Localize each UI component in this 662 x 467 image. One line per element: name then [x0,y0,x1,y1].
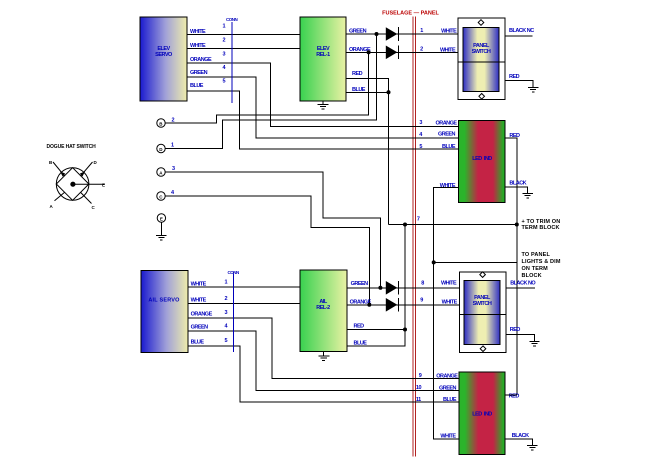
node dot B-riser on ORANGE row [367,50,371,54]
svg-text:RED: RED [509,393,520,399]
servo U3 AIL SERVO [141,270,188,352]
wire ELEV REL-1 BLUE [346,87,389,93]
svg-text:BLUE: BLUE [443,397,457,403]
node dot RED/BLUE junction [387,90,391,94]
wire terminal C to AIL ORANGE diode node [165,196,369,305]
svg-text:ORANGE: ORANGE [436,374,458,380]
wire ELEV REL-1 RED to trim bus [346,71,389,225]
svg-text:WHITE: WHITE [440,48,456,54]
svg-text:D: D [159,147,163,152]
ground for panel switch 1 [528,87,538,92]
hat switch arm C (lower-right) [81,192,92,203]
svg-text:RED: RED [509,74,520,80]
svg-text:2: 2 [420,47,423,53]
hat switch S1 body circle [56,168,89,201]
svg-text:5: 5 [222,79,225,85]
wire RED from panel switch 2 to ground [506,327,535,341]
svg-text:5: 5 [419,144,422,150]
wire BLACK NC from panel switch 1 [505,28,534,36]
svg-text:BLACK NC: BLACK NC [509,28,534,34]
ground for panel switch 2 [529,341,539,346]
svg-text:SWITCH: SWITCH [472,49,491,55]
hat switch arrowhead B [60,171,65,176]
relay U2 ELEV REL-1 [300,17,346,101]
wire WHITE into LED1 from dim bus [434,183,459,439]
svg-text:E: E [102,183,105,188]
svg-text:ON TERM: ON TERM [522,266,549,272]
wire ELEV REL-1 ORANGE [346,47,458,53]
svg-text:GREEN: GREEN [439,386,457,392]
switch S2 divider [458,61,505,63]
switch S2 mounting diamond bottom [479,94,485,100]
svg-text:2: 2 [222,38,225,44]
svg-text:7: 7 [417,217,420,223]
svg-text:C: C [159,194,163,199]
svg-text:SWITCH: SWITCH [473,301,492,307]
wire RED from panel switch 1 to ground [505,74,533,87]
switch S3 mounting diamond top [480,272,486,278]
switch S3 PANEL SWITCH outer [459,272,506,353]
wire BLACK from LED2 to ground [505,433,532,445]
wire trim bus row [389,224,517,226]
svg-text:ORANGE: ORANGE [435,121,457,127]
svg-text:REL-2: REL-2 [316,305,330,311]
svg-text:C: C [92,205,96,210]
svg-text:BLUE: BLUE [354,340,368,346]
wire ELEV REL-1 GREEN [346,29,458,35]
wire AIL REL-2 ORANGE [347,299,459,305]
svg-text:3: 3 [419,120,422,126]
svg-text:WHITE: WHITE [440,434,456,440]
switch S2 inner body [463,28,499,92]
svg-text:RED: RED [352,71,363,77]
svg-text:1: 1 [224,280,227,286]
terminal E [157,214,165,222]
svg-text:LED IND: LED IND [472,412,492,418]
svg-text:BLUE: BLUE [191,339,205,345]
wire AIL SERVO pin4 GREEN [188,325,459,391]
switch S3 inner body [464,280,500,344]
wire terminal D to GREEN diode node [165,34,376,149]
svg-text:WHITE: WHITE [441,29,457,35]
svg-text:3: 3 [224,310,227,316]
wire AIL SERVO pin5 BLUE [188,339,459,402]
svg-text:GREEN: GREEN [351,281,369,287]
terminal D [157,143,174,153]
svg-text:11: 11 [416,397,421,403]
svg-text:GREEN: GREEN [191,325,209,331]
wire panel lights dim row [434,261,517,263]
svg-text:RED: RED [354,324,365,330]
svg-text:3: 3 [222,52,225,58]
hat switch arm B (upper-left) [53,162,65,176]
lamp LED IND 1 [459,121,505,203]
svg-text:ORANGE: ORANGE [190,57,212,63]
svg-text:1: 1 [222,24,225,30]
ground for LED1 [522,194,532,199]
svg-text:8: 8 [421,281,424,287]
diode D4 [386,298,399,312]
svg-text:10: 10 [416,385,422,391]
svg-text:REL-1: REL-1 [316,52,330,58]
wire ELEV SERVO pin1 WHITE [187,29,300,35]
diode D3 [386,281,399,295]
svg-text:D: D [94,160,98,165]
wire AIL REL-2 RED [347,324,405,330]
svg-text:BLUE: BLUE [442,144,456,150]
hat switch center dot [70,182,75,187]
svg-text:WHITE: WHITE [442,300,458,306]
terminal C [157,190,175,200]
diode D1 [386,27,399,41]
svg-text:B: B [49,160,53,165]
hat switch inscribed diamond [56,168,89,201]
switch S2 label [472,43,491,55]
connector J2 CONN [224,270,239,352]
wire AIL SERVO pin1 WHITE [188,281,300,287]
svg-text:RED: RED [510,327,521,333]
svg-text:BLACK: BLACK [509,181,526,187]
ground below ELEV REL-1 [318,101,329,109]
svg-text:LED IND: LED IND [472,156,492,162]
ground below AIL REL-2 [318,352,329,361]
fuselage-panel boundary line [413,17,415,457]
switch S2 PANEL SWITCH outer [458,18,505,100]
node dot D-riser on GREEN row [375,32,379,36]
diode D2 [386,46,399,60]
svg-text:1: 1 [171,143,174,149]
svg-text:2: 2 [224,296,227,302]
svg-text:ORANGE: ORANGE [191,311,213,317]
wire ELEV SERVO pin3 ORANGE [187,57,459,127]
node dot A-riser on AIL GREEN row [378,286,382,290]
ground for LED2 [527,446,537,451]
svg-text:TERM BLOCK: TERM BLOCK [522,225,560,231]
switch S2 mounting diamond top [478,20,484,26]
switch S3 mounting diamond bottom [480,346,486,352]
svg-text:1: 1 [420,28,423,34]
wire AIL REL-2 BLUE [347,330,405,347]
wire BLACK NO from panel switch 2 [506,280,536,288]
svg-text:TO PANEL: TO PANEL [522,252,551,258]
svg-text:9: 9 [420,297,423,303]
node dot trim/ail riser [403,223,407,227]
svg-text:SERVO: SERVO [155,52,173,58]
wire ELEV SERVO pin4 GREEN [187,70,459,138]
svg-text:FUSELAGE — PANEL: FUSELAGE — PANEL [382,11,439,17]
svg-text:A: A [50,204,54,209]
wire riser to ail RED/BLUE [404,225,406,330]
svg-text:GREEN: GREEN [190,70,208,76]
servo U1 ELEV SERVO [140,17,187,101]
node dot AIL RED junction [403,328,407,332]
svg-text:BLACK: BLACK [512,433,529,439]
node dot C-riser on AIL ORANGE row [367,303,371,307]
switch S3 divider [459,313,506,315]
svg-text:WHITE: WHITE [191,281,207,287]
terminal A [157,166,175,176]
switch S3 label [473,295,492,307]
svg-text:WHITE: WHITE [191,298,207,304]
wire AIL REL-2 GREEN [347,281,459,288]
svg-text:WHITE: WHITE [440,183,456,189]
wire terminal B to ORANGE diode node [165,52,368,123]
node dot dim/white riser [432,260,436,264]
wire ELEV SERVO pin2 WHITE [187,43,300,49]
svg-text:BLACK NO: BLACK NO [510,280,536,286]
svg-text:BLUE: BLUE [190,83,204,89]
hat switch arm A (lower-left) [55,192,65,200]
node dot trim/LED red riser [515,223,519,227]
wire AIL SERVO pin2 WHITE [188,298,300,304]
text lights destination [522,252,561,279]
hat switch arrowhead D [80,171,85,176]
svg-text:3: 3 [172,166,175,172]
svg-text:GREEN: GREEN [438,132,456,138]
terminal B [157,118,175,128]
wire RED into LED2 [505,393,519,399]
svg-text:LIGHTS & DIM: LIGHTS & DIM [522,259,561,265]
svg-text:B: B [159,121,163,126]
svg-text:9: 9 [419,373,422,379]
svg-text:A: A [159,170,163,175]
hat switch common lever to E [73,183,105,185]
wire AIL SERVO pin3 ORANGE [188,311,459,378]
svg-text:WHITE: WHITE [441,280,457,286]
relay U4 AIL REL-2 [300,270,347,352]
wire BLACK from LED1 to ground [505,181,528,194]
svg-text:AIL SERVO: AIL SERVO [148,298,180,304]
ground below terminal E [156,222,166,240]
wire ELEV SERVO pin5 BLUE [187,83,459,149]
svg-text:5: 5 [224,338,227,344]
wire terminal A to AIL GREEN diode node [165,172,380,288]
connector J1 CONN [222,17,237,103]
svg-text:CONN: CONN [226,17,237,22]
svg-text:DOGUE HAT SWITCH: DOGUE HAT SWITCH [47,144,97,150]
lamp LED IND 2 [459,372,505,455]
hat switch arm D (upper-right) [81,162,93,176]
svg-text:BLOCK: BLOCK [522,273,542,279]
wire RED from LED1 down to LED2 [505,133,520,395]
text trim destination [522,219,561,231]
svg-text:E: E [160,216,163,221]
